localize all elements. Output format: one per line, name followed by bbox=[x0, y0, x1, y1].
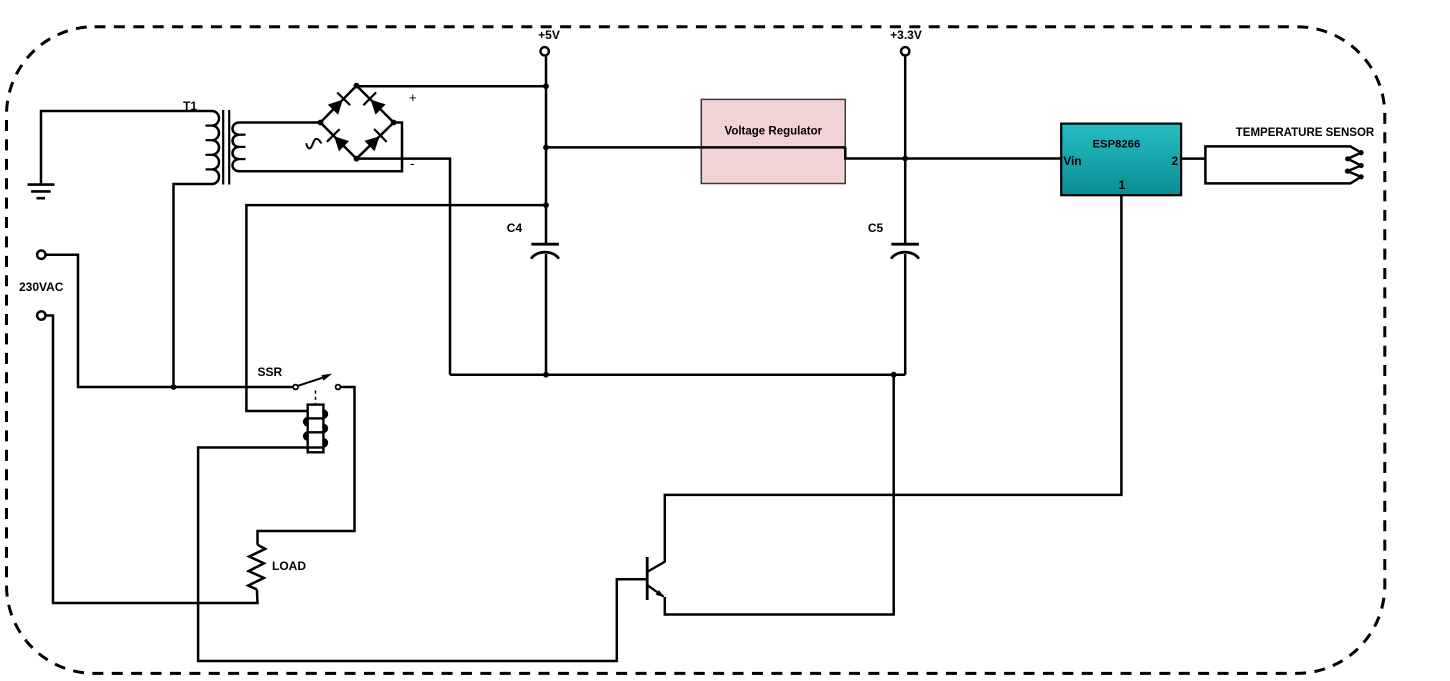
temperature sensor probe bbox=[1205, 146, 1361, 183]
wire ESP pin 2 to sensor bbox=[1181, 157, 1205, 160]
transformer T1 primary ticks bbox=[206, 126, 213, 170]
SSR actuator dashed link bbox=[315, 391, 317, 405]
capacitor C4 bbox=[531, 244, 559, 259]
SSR switch pole contact bbox=[293, 385, 298, 390]
svg-text:LOAD: LOAD bbox=[272, 559, 306, 573]
junction 5V regulator feed bbox=[543, 145, 549, 151]
AC sine symbol bbox=[306, 139, 321, 149]
transistor Q1 bbox=[647, 557, 665, 600]
node bridge plus bbox=[354, 83, 360, 89]
wire T1 secondary bottom to bridge AC right bbox=[239, 123, 402, 172]
wire C5 bottom bbox=[904, 254, 907, 375]
svg-text:230VAC: 230VAC bbox=[19, 280, 64, 294]
junction 0V emitter return bbox=[891, 372, 897, 378]
wire Q1 emitter stub bbox=[664, 597, 667, 616]
svg-text:C5: C5 bbox=[868, 221, 884, 235]
terminal 230VAC line bbox=[37, 251, 45, 259]
node bridge AC left bbox=[318, 120, 324, 126]
svg-text:TEMPERATURE SENSOR: TEMPERATURE SENSOR bbox=[1236, 127, 1375, 139]
terminal +5V bbox=[541, 47, 549, 55]
resistor LOAD bbox=[248, 545, 265, 590]
wire C4 bottom bbox=[545, 254, 548, 375]
diode D1 bbox=[328, 93, 350, 115]
transformer T1 primary winding bbox=[212, 111, 219, 184]
node bridge AC right bbox=[391, 120, 397, 126]
transformer T1 secondary ticks bbox=[239, 135, 246, 159]
wire 0V rail bbox=[450, 373, 905, 376]
diode D4 bbox=[365, 129, 387, 151]
wire emitter return bbox=[665, 375, 894, 615]
wire 5V to regulator input bbox=[546, 146, 845, 149]
junction 5V bridge bbox=[543, 83, 549, 89]
svg-text:T1: T1 bbox=[183, 99, 197, 113]
svg-text:2: 2 bbox=[1172, 154, 1179, 168]
bridge rectifier diamond bbox=[320, 86, 393, 159]
diode D2 bbox=[363, 92, 385, 114]
wire bridge plus to 5V rail bbox=[357, 85, 547, 88]
node bridge minus bbox=[354, 156, 360, 162]
wire 230VAC line to SSR switch bbox=[46, 255, 294, 387]
transformer T1 secondary winding bbox=[233, 123, 239, 172]
wire ground to T1 primary top bbox=[41, 111, 212, 184]
transformer T1 core bbox=[223, 110, 229, 185]
relay coil SSR input bbox=[304, 405, 327, 453]
wire relay coil return to Q1 base bbox=[198, 448, 646, 662]
svg-text:+3.3V: +3.3V bbox=[890, 28, 922, 42]
terminal 230VAC neutral bbox=[37, 311, 45, 319]
ESP8266 box bbox=[1061, 124, 1181, 196]
svg-text:Vin: Vin bbox=[1063, 154, 1081, 168]
wire Q1 collector to ESP pin 1 bbox=[665, 195, 1122, 562]
SSR switch throw contact bbox=[336, 385, 341, 390]
wire SSR throw to LOAD bbox=[258, 387, 355, 545]
svg-text:C4: C4 bbox=[507, 221, 523, 235]
svg-text:ESP8266: ESP8266 bbox=[1093, 139, 1141, 151]
junction 3V3 C5 bbox=[902, 156, 908, 162]
voltage regulator box bbox=[701, 99, 845, 183]
svg-text:SSR: SSR bbox=[258, 365, 283, 379]
svg-text:1: 1 bbox=[1119, 178, 1126, 192]
wire 5V to relay coil bbox=[246, 205, 546, 411]
junction 0V C4 bbox=[543, 372, 549, 378]
svg-text:+: + bbox=[409, 90, 417, 105]
terminal +3.3V bbox=[901, 47, 909, 55]
svg-text:Voltage Regulator: Voltage Regulator bbox=[725, 126, 823, 138]
junction 5V coil feed bbox=[543, 202, 549, 208]
ground bbox=[28, 185, 55, 199]
wire T1 primary bottom to SSR rail bbox=[174, 184, 213, 387]
junction T1 primary SSR feed bbox=[171, 384, 177, 390]
wire LOAD to 230VAC neutral bbox=[46, 316, 258, 604]
temperature sensor element nodes bbox=[1345, 150, 1364, 179]
svg-text:+5V: +5V bbox=[538, 28, 560, 42]
diode D3 bbox=[327, 129, 349, 151]
wire T1 secondary top to bridge AC left bbox=[239, 121, 320, 124]
wire 3V3 rail vertical bbox=[904, 56, 907, 244]
SSR switch lever bbox=[298, 374, 332, 386]
wire bridge minus output bbox=[357, 159, 451, 375]
capacitor C5 bbox=[891, 244, 919, 259]
wire regulator output to ESP Vin bbox=[845, 147, 1061, 158]
wire 5V rail vertical bbox=[545, 56, 548, 244]
